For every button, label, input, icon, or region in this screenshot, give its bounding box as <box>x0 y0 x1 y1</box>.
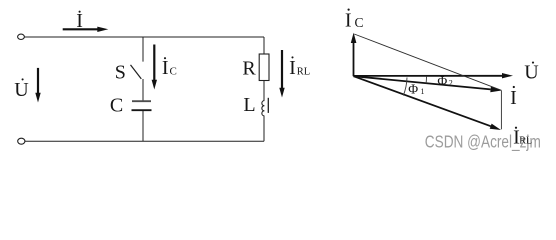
svg-text:Φ: Φ <box>437 73 447 88</box>
label I (current) <box>76 10 83 32</box>
svg-text:L: L <box>243 94 255 116</box>
inductor core bar <box>267 98 269 113</box>
label phi1 <box>408 81 424 96</box>
resistor R box <box>259 54 269 81</box>
svg-text:U: U <box>14 79 29 101</box>
label IC (capacitor current) <box>162 57 177 79</box>
label IRL (branch current) <box>289 56 310 79</box>
svg-text:U: U <box>524 61 539 83</box>
phasor IC vector <box>351 33 357 77</box>
svg-text:I: I <box>510 87 517 109</box>
switch S blade <box>131 65 142 79</box>
svg-text:RL: RL <box>297 66 310 77</box>
angle arc phi1 <box>403 78 407 96</box>
inductor L coil <box>262 101 265 116</box>
phasor IRL vector <box>354 76 502 130</box>
svg-text:I: I <box>289 57 296 79</box>
capacitor C bottom plate <box>132 109 152 111</box>
svg-text:C: C <box>110 95 123 117</box>
voltage arrow U <box>35 68 40 103</box>
svg-text:2: 2 <box>449 79 453 88</box>
label phasor U <box>524 61 539 83</box>
phasor U vector <box>354 73 514 78</box>
terminal top-left <box>18 34 25 39</box>
wire branch top to switch <box>142 37 144 62</box>
capacitor C top plate <box>132 100 151 102</box>
label U (source voltage) <box>14 78 29 101</box>
wire switch to capacitor <box>142 79 144 101</box>
label phasor IRL <box>513 127 532 149</box>
construction line from I tip to IRL tip <box>500 91 502 130</box>
wire resistor to inductor <box>263 81 265 101</box>
label phasor IC <box>345 9 364 32</box>
wire bottom <box>25 140 264 142</box>
svg-text:S: S <box>115 61 126 83</box>
svg-text:C: C <box>355 15 364 30</box>
wire inductor to bottom <box>263 116 265 141</box>
phasor I vector <box>354 76 502 92</box>
current arrow IC <box>152 45 157 90</box>
terminal bottom-left <box>18 138 25 144</box>
angle arc phi2 <box>425 77 427 84</box>
svg-text:I: I <box>76 10 83 32</box>
wire right branch top <box>263 37 265 54</box>
label phi2 <box>437 73 452 88</box>
construction line from IC tip to I tip <box>354 34 501 90</box>
svg-text:I: I <box>162 57 169 79</box>
current arrow I <box>63 27 109 32</box>
svg-text:RL: RL <box>519 136 532 147</box>
svg-text:1: 1 <box>421 87 425 96</box>
svg-text:Φ: Φ <box>408 81 418 96</box>
wire top <box>24 36 264 38</box>
label phasor I <box>510 86 517 109</box>
svg-text:C: C <box>170 66 177 78</box>
current arrow IRL <box>279 50 284 98</box>
svg-text:I: I <box>345 10 352 32</box>
wire capacitor to bottom <box>142 111 144 141</box>
svg-text:R: R <box>242 58 256 80</box>
